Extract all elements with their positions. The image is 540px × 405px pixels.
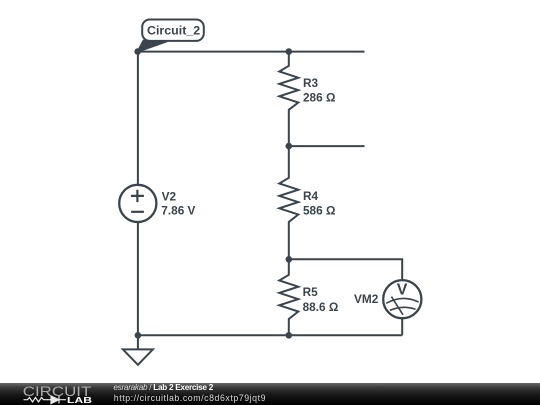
wire node B to voltmeter top [289,259,402,280]
junction dot R3/R4 [286,143,293,150]
wire bottom horizontal (ground node to VM2 bottom) [138,334,402,336]
wire middle horizontal stub at R3/R4 junction [289,145,365,147]
V2 minus sign [131,211,144,213]
footer line 1 [113,383,213,392]
wire left rail lower (V2 bottom to ground node) [137,222,139,335]
logo resistor zigzag [24,398,49,402]
wire voltmeter bottom to bottom rail [401,318,403,335]
junction dot R5 bottom [286,332,293,339]
svg-text:V: V [397,281,408,298]
voltmeter VM2 circle [383,280,421,318]
junction dot ground node [135,332,142,339]
svg-text:R4: R4 [303,189,319,203]
svg-text:VM2: VM2 [354,292,379,306]
svg-text:V2: V2 [162,190,177,204]
voltage source V2 circle [119,185,156,222]
junction dot top R3 [286,48,293,55]
wire left rail upper (node A to V2 top) [137,52,139,185]
resistor R4 [279,146,298,259]
svg-text:Circuit_2: Circuit_2 [147,23,201,37]
svg-text:286 Ω: 286 Ω [303,91,335,105]
callout box Circuit_2 [142,20,204,41]
V2 plus sign [131,190,144,202]
circuitlab logo [0,383,100,405]
ground stem [137,335,139,349]
svg-text:R3: R3 [303,76,319,90]
VM2 meter upper arc [386,298,418,303]
VM2 meter lower arc [390,307,416,310]
svg-text:LAB: LAB [67,395,92,405]
junction node A dot [134,48,141,55]
footer bar [0,383,540,405]
resistor R3 [279,52,298,147]
wire top horizontal from node A to right stub [138,51,365,53]
logo diode [48,396,67,404]
junction dot R4/R5 node B [286,256,293,263]
svg-text:586 Ω: 586 Ω [303,203,335,217]
ground triangle [123,349,153,364]
svg-text:7.86 V: 7.86 V [161,204,195,218]
resistor R5 [279,259,298,335]
VM2 meter needle [391,297,403,315]
svg-text:88.6 Ω: 88.6 Ω [303,300,339,314]
footer line 2 [114,393,266,403]
svg-text:R5: R5 [303,285,319,299]
callout tail for Circuit_2 [138,41,168,52]
